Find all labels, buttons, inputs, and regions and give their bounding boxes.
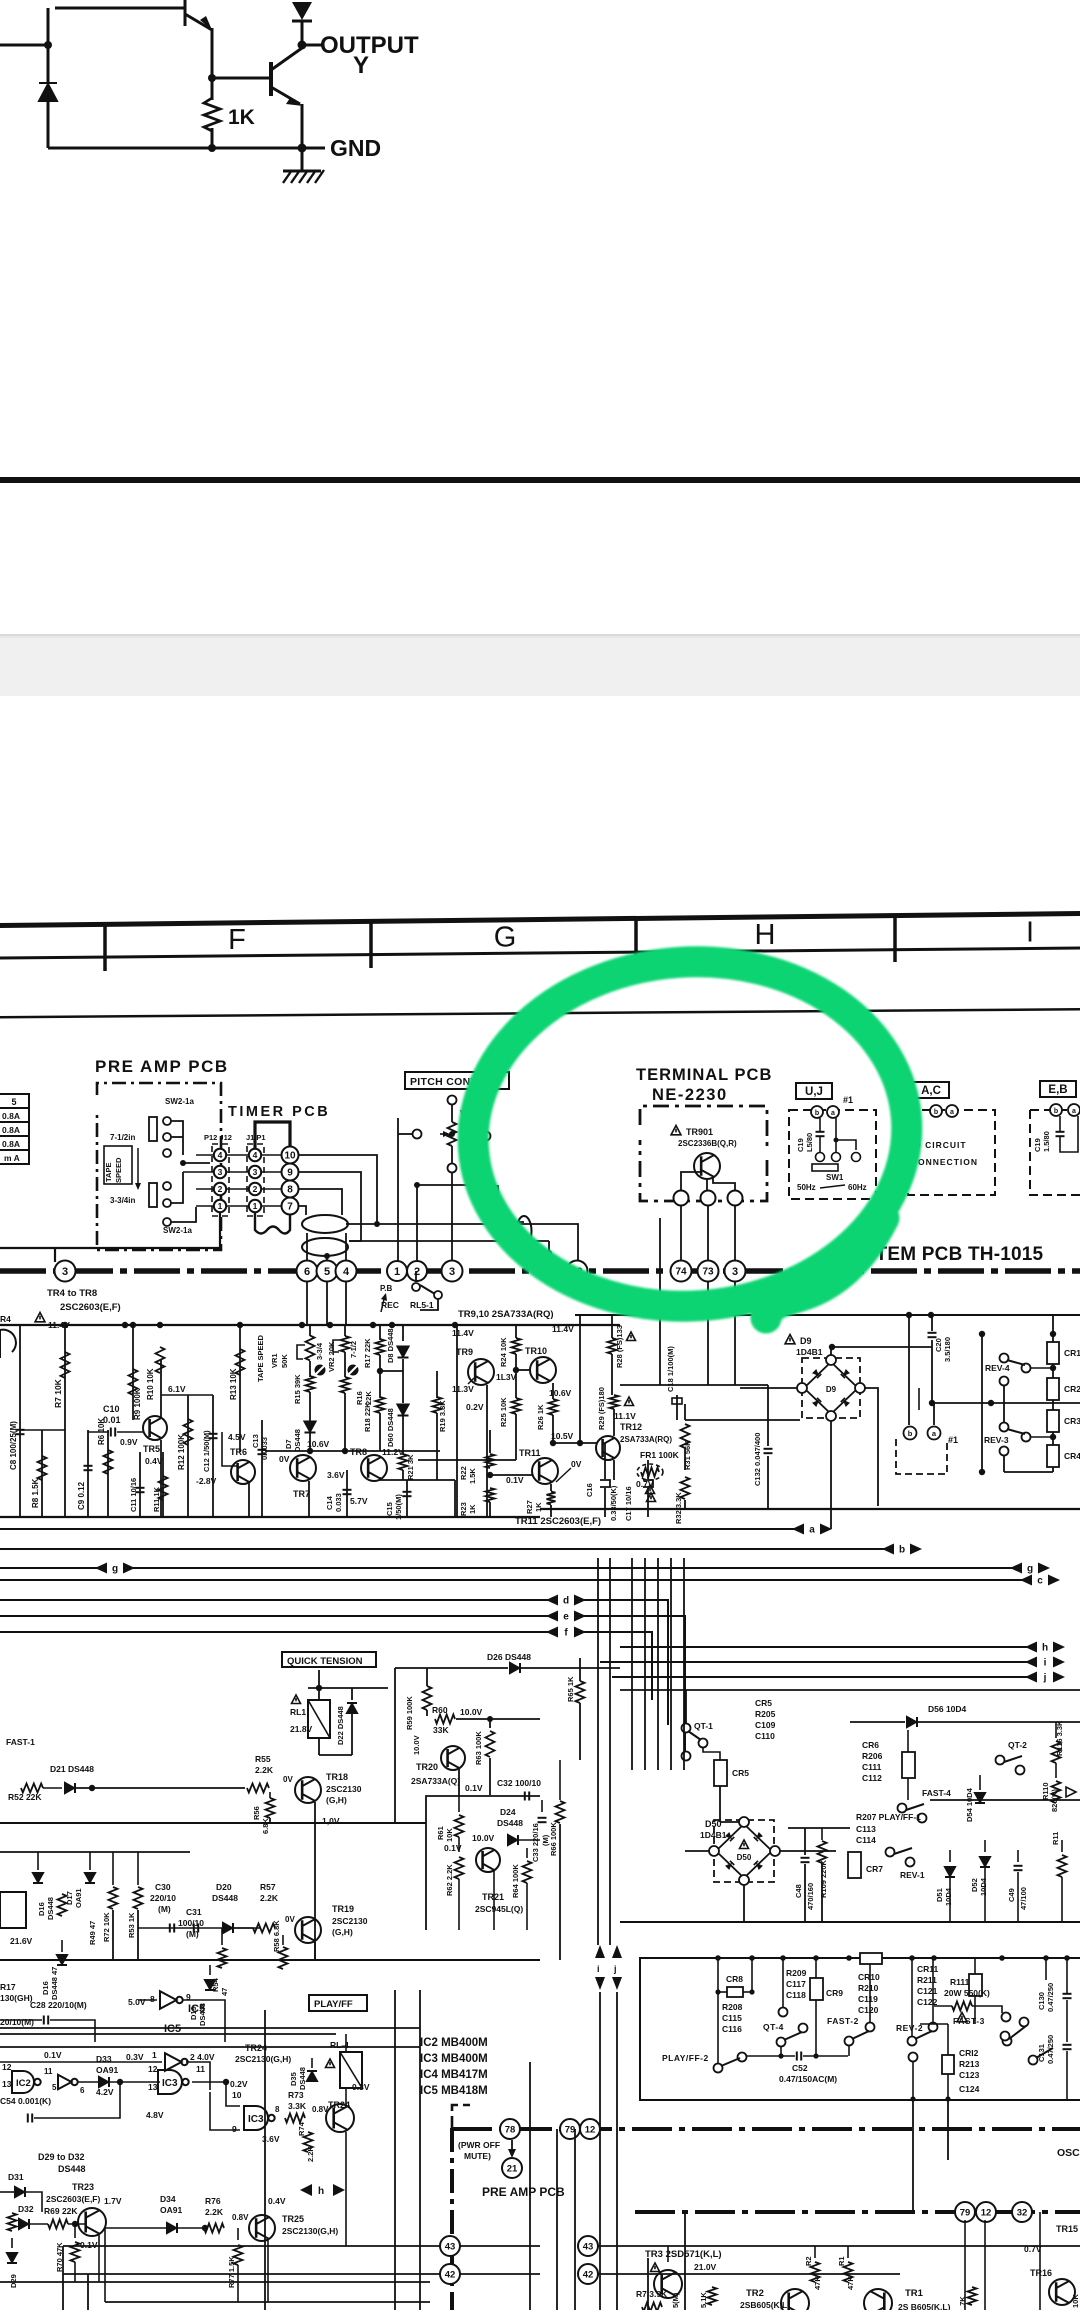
svg-text:TR6: TR6 xyxy=(230,1447,247,1457)
wire xyxy=(196,1154,213,1156)
svg-text:130(GH): 130(GH) xyxy=(0,1993,33,2003)
svg-text:C112: C112 xyxy=(862,1773,882,1783)
wire xyxy=(1052,1432,1054,1445)
wire xyxy=(78,2081,98,2083)
svg-text:TAPE SPEED: TAPE SPEED xyxy=(256,1334,265,1382)
svg-text:IC2 MB400M: IC2 MB400M xyxy=(420,2037,488,2049)
wire xyxy=(47,102,50,148)
svg-text:#1: #1 xyxy=(843,1095,853,1105)
svg-text:C117: C117 xyxy=(786,1979,806,1989)
wire xyxy=(681,1172,701,1192)
svg-text:11.4V: 11.4V xyxy=(452,1328,474,1338)
svg-text:47: 47 xyxy=(220,1988,229,1996)
resistor R1 xyxy=(844,2262,853,2282)
transistor TR3 xyxy=(654,2270,682,2298)
svg-text:4: 4 xyxy=(218,1150,223,1160)
svg-text:R205: R205 xyxy=(755,1709,776,1719)
wire xyxy=(519,1839,540,1841)
junction xyxy=(1043,1955,1049,1961)
svg-text:QT-2: QT-2 xyxy=(1008,1740,1027,1750)
wire xyxy=(583,1600,668,1725)
transistor TR21 xyxy=(476,1848,500,1872)
junction xyxy=(1050,1331,1056,1337)
svg-text:TR12: TR12 xyxy=(620,1422,642,1432)
svg-text:C124: C124 xyxy=(959,2084,980,2094)
wire xyxy=(931,1315,933,1331)
svg-text:DS448 47: DS448 47 xyxy=(50,1967,59,2000)
svg-text:CR7: CR7 xyxy=(866,1864,883,1874)
svg-text:C52: C52 xyxy=(792,2063,808,2073)
switch FAST-2 xyxy=(845,2037,854,2046)
pin 1 J1 xyxy=(249,1200,261,1212)
wire xyxy=(20,1429,65,1431)
svg-text:11: 11 xyxy=(196,2064,205,2074)
wire xyxy=(979,1775,981,1790)
wire xyxy=(262,1205,281,1207)
svg-text:G: G xyxy=(494,921,517,953)
svg-text:(M): (M) xyxy=(158,1904,171,1914)
junction xyxy=(834,1138,839,1143)
wire xyxy=(302,147,325,150)
timer pcb outline xyxy=(255,1122,290,1150)
resistor R69 xyxy=(48,2220,68,2229)
junction xyxy=(979,1331,985,1337)
junction xyxy=(909,1955,915,1961)
wire xyxy=(237,2228,239,2240)
wire xyxy=(419,1990,421,2310)
svg-text:0.1V: 0.1V xyxy=(80,2240,98,2250)
svg-text:j: j xyxy=(613,1964,617,1974)
svg-text:5.1K: 5.1K xyxy=(699,2292,708,2308)
resistor R58 xyxy=(279,1947,288,1969)
resistor R109 xyxy=(818,1841,827,1863)
wire xyxy=(556,2129,558,2310)
wire xyxy=(598,2273,900,2275)
junction xyxy=(298,41,307,50)
transistor TR9 xyxy=(468,1359,494,1385)
pin a xyxy=(928,1427,941,1440)
svg-text:J1 P1: J1 P1 xyxy=(246,1133,266,1142)
diode D24 xyxy=(508,1835,518,1845)
wire xyxy=(196,1188,213,1190)
svg-text:5: 5 xyxy=(52,2083,57,2092)
svg-text:R59 100K: R59 100K xyxy=(405,1696,414,1730)
svg-text:0.8A: 0.8A xyxy=(2,1111,20,1121)
svg-text:C115: C115 xyxy=(722,2013,742,2023)
resistor CR12 xyxy=(942,2055,954,2074)
svg-text:C48: C48 xyxy=(794,1884,803,1898)
trimmer mark 2 xyxy=(347,1364,359,1376)
wire xyxy=(767,1456,769,1509)
wire xyxy=(821,1828,823,1840)
svg-text:REV-2: REV-2 xyxy=(896,2023,923,2033)
diode D21 xyxy=(65,1783,75,1793)
wire xyxy=(604,1443,606,1479)
wire xyxy=(436,1413,438,1480)
wire xyxy=(171,1172,183,1203)
svg-text:TR11: TR11 xyxy=(519,1448,541,1458)
wire xyxy=(804,1864,806,1922)
junction xyxy=(577,1440,583,1446)
header tick xyxy=(369,921,373,968)
svg-text:P12 J12: P12 J12 xyxy=(204,1133,232,1142)
resistor R49 xyxy=(58,1894,67,1916)
svg-text:h: h xyxy=(1042,1642,1048,1653)
svg-text:NE-2230: NE-2230 xyxy=(652,1086,728,1104)
svg-text:10.0V: 10.0V xyxy=(472,1833,495,1843)
resistor R62 xyxy=(455,1857,464,1879)
capacitor C49 xyxy=(1014,1866,1023,1870)
bridge diode xyxy=(754,1832,763,1841)
bridge diode xyxy=(841,1369,850,1378)
svg-text:3: 3 xyxy=(449,1266,455,1278)
wire xyxy=(984,2220,986,2310)
resistor R56 xyxy=(266,1798,275,1818)
junction xyxy=(208,74,216,82)
svg-text:CR10: CR10 xyxy=(858,1972,880,1982)
svg-text:4: 4 xyxy=(343,1266,350,1278)
wire xyxy=(1003,1385,1005,1422)
svg-text:D33: D33 xyxy=(96,2054,112,2064)
wire xyxy=(0,2046,420,2048)
svg-text:R55: R55 xyxy=(255,1754,271,1764)
resistor R66 xyxy=(556,1801,565,1823)
wire xyxy=(947,2100,949,2160)
wire xyxy=(680,1206,682,1262)
svg-text:C49: C49 xyxy=(1007,1888,1016,1902)
svg-text:2SA733A(RQ): 2SA733A(RQ) xyxy=(620,1435,672,1444)
switch SW1 bar xyxy=(812,1164,838,1171)
svg-text:C11 10/16: C11 10/16 xyxy=(129,1478,138,1512)
capacitor C11 xyxy=(136,1488,145,1492)
resistor R7b xyxy=(642,2303,662,2312)
svg-text:78: 78 xyxy=(505,2124,516,2135)
wire xyxy=(406,1480,408,1517)
wire xyxy=(631,1690,633,1770)
wire xyxy=(311,2058,313,2068)
svg-text:1K: 1K xyxy=(468,1504,477,1514)
resistor R18 xyxy=(376,1397,385,1413)
wire xyxy=(835,1140,837,1152)
wire xyxy=(659,1218,661,1385)
svg-text:79: 79 xyxy=(565,2124,576,2135)
wire xyxy=(1004,1471,1053,1473)
contact circle xyxy=(816,1153,825,1162)
diode D54 xyxy=(975,1793,985,1803)
wire xyxy=(34,2082,120,2118)
svg-text:h: h xyxy=(318,2186,324,2197)
switch QT-1 xyxy=(682,1724,691,1733)
wire xyxy=(426,1710,428,1716)
wire xyxy=(900,1921,1080,1923)
svg-text:D20: D20 xyxy=(216,1882,232,1892)
svg-text:R65 1K: R65 1K xyxy=(566,1676,575,1702)
wire xyxy=(734,1206,736,1262)
wire xyxy=(583,1616,685,1760)
svg-text:R109 220K: R109 220K xyxy=(819,1859,828,1898)
svg-text:H: H xyxy=(755,919,776,951)
svg-text:0.0033: 0.0033 xyxy=(260,1437,269,1460)
svg-text:4.2V: 4.2V xyxy=(96,2087,114,2097)
warning mark xyxy=(785,1335,795,1344)
arrow j down xyxy=(612,1945,622,1958)
pin a xyxy=(827,1106,839,1118)
wire xyxy=(306,1282,308,1325)
bridge diode xyxy=(725,1861,734,1870)
wire xyxy=(934,2005,952,2007)
svg-text:IC5: IC5 xyxy=(188,2003,205,2015)
capacitor C31 xyxy=(194,1924,198,1933)
pin 4 P12 xyxy=(214,1149,226,1161)
wire xyxy=(55,1213,220,1248)
dashed box D9 xyxy=(802,1358,860,1418)
wire xyxy=(211,128,214,148)
svg-text:R7 3.9K: R7 3.9K xyxy=(636,2289,668,2299)
svg-text:TR20: TR20 xyxy=(416,1762,438,1772)
diode xyxy=(39,83,57,101)
wire xyxy=(402,1416,404,1455)
open arrow xyxy=(1066,1787,1076,1797)
wire xyxy=(670,1690,672,1770)
junction xyxy=(846,1955,852,1961)
svg-text:TR3 2SD571(K,L): TR3 2SD571(K,L) xyxy=(645,2249,722,2260)
resistor CR8 xyxy=(727,1987,743,1997)
switch contact xyxy=(434,1291,442,1299)
svg-text:2.2K: 2.2K xyxy=(306,2146,315,2162)
svg-text:C30: C30 xyxy=(155,1882,171,1892)
svg-text:R27: R27 xyxy=(525,1500,534,1514)
NAND IC2 xyxy=(12,2071,41,2093)
svg-text:42: 42 xyxy=(583,2269,594,2280)
transistor TR12 xyxy=(596,1436,620,1460)
resistor R31 xyxy=(681,1424,690,1448)
wire xyxy=(541,1800,543,1812)
junction xyxy=(929,1400,935,1406)
junction xyxy=(546,1250,552,1256)
svg-text:CR3: CR3 xyxy=(1064,1416,1080,1426)
switch contact SW2 xyxy=(163,1149,171,1157)
junction xyxy=(979,1469,985,1475)
wire xyxy=(43,1787,62,1789)
node arrow g xyxy=(1010,1563,1050,1575)
svg-text:R58 6.8K: R58 6.8K xyxy=(272,1920,281,1952)
wire xyxy=(183,2000,225,2042)
node 42 xyxy=(440,2264,460,2284)
switch REV-4 xyxy=(1000,1354,1009,1363)
svg-text:RL1: RL1 xyxy=(290,1707,306,1717)
svg-text:C113: C113 xyxy=(856,1824,876,1834)
junction xyxy=(342,1448,348,1454)
wire xyxy=(526,1848,528,1858)
wire xyxy=(62,2246,64,2310)
wire xyxy=(815,2000,817,2056)
svg-text:#1: #1 xyxy=(948,1435,958,1445)
wire xyxy=(48,147,302,150)
wire xyxy=(819,1118,821,1132)
wire xyxy=(0,1631,548,1633)
wire xyxy=(227,1188,248,1190)
svg-text:b: b xyxy=(899,1544,905,1555)
svg-text:TR21: TR21 xyxy=(482,1892,504,1902)
dashed box D50 xyxy=(714,1820,774,1882)
svg-text:6.1V: 6.1V xyxy=(168,1384,186,1394)
wire xyxy=(489,1502,491,1517)
svg-text:6: 6 xyxy=(80,2086,85,2095)
wire xyxy=(0,1247,55,1249)
wire xyxy=(1052,1315,1054,1342)
resistor R73 xyxy=(285,2114,305,2123)
wire xyxy=(418,1459,516,1461)
svg-text:VR1: VR1 xyxy=(270,1353,279,1368)
resistor 1K xyxy=(204,98,220,131)
wire xyxy=(395,1667,508,1669)
wire xyxy=(1066,1958,1068,1993)
wire xyxy=(490,1474,532,1476)
svg-text:REV-3: REV-3 xyxy=(984,1435,1009,1445)
junction xyxy=(999,1955,1005,1961)
wire xyxy=(830,1347,832,1355)
resistor R9 xyxy=(129,1369,138,1395)
svg-text:SW2-1a: SW2-1a xyxy=(165,1097,194,1106)
node arrow b xyxy=(882,1544,922,1556)
wire xyxy=(379,1355,381,1371)
switch REV-3 lower xyxy=(1000,1447,1009,1456)
junction xyxy=(1050,1365,1056,1371)
timer pcb outline lower xyxy=(255,1212,290,1234)
switch QT-4 xyxy=(777,2038,786,2047)
transistor TR7 xyxy=(290,1455,316,1481)
svg-text:0V: 0V xyxy=(279,1454,290,1464)
transistor TR11 xyxy=(532,1458,558,1484)
svg-text:TAPE: TAPE xyxy=(104,1163,113,1182)
svg-text:TR1: TR1 xyxy=(905,2288,924,2299)
svg-text:R8 1.5K: R8 1.5K xyxy=(31,1478,40,1508)
transistor TR24 xyxy=(326,2104,354,2132)
wire xyxy=(112,1852,114,1885)
arrow i down xyxy=(595,1945,605,1958)
warning mark xyxy=(292,1695,301,1704)
pin b xyxy=(930,1105,942,1117)
svg-text:21: 21 xyxy=(507,2163,518,2174)
node 6 rail xyxy=(297,1261,318,1282)
wire xyxy=(344,1325,346,1336)
wire xyxy=(489,1758,491,1795)
svg-text:0V: 0V xyxy=(285,1915,295,1924)
wire xyxy=(344,1393,346,1451)
resistor CR5 xyxy=(714,1760,727,1786)
wire xyxy=(76,1787,245,1789)
svg-text:13: 13 xyxy=(148,2082,158,2092)
svg-text:5(M): 5(M) xyxy=(671,2292,680,2308)
wire xyxy=(212,1395,214,1517)
diode D51 xyxy=(945,1867,955,1877)
wire xyxy=(635,2210,1080,2214)
svg-text:QT-1: QT-1 xyxy=(694,1721,713,1731)
wire xyxy=(458,1837,460,1852)
svg-text:CR1: CR1 xyxy=(1064,1348,1080,1358)
wire xyxy=(815,1958,817,1978)
resistor CR9 xyxy=(810,1978,823,2000)
wire xyxy=(402,1325,404,1341)
svg-text:C116: C116 xyxy=(722,2024,742,2034)
junction xyxy=(157,1322,163,1328)
svg-text:0.7V: 0.7V xyxy=(1024,2244,1042,2254)
svg-text:C20: C20 xyxy=(934,1338,943,1352)
wire xyxy=(87,1430,89,1517)
wire xyxy=(920,2023,948,2025)
dashed box E,B xyxy=(1030,1110,1080,1195)
svg-text:C12 1/50(M): C12 1/50(M) xyxy=(202,1430,211,1472)
wire xyxy=(869,1958,871,2023)
connector dashed box P12 xyxy=(212,1144,229,1216)
wire xyxy=(237,2265,239,2302)
wire xyxy=(345,2034,347,2052)
svg-text:i: i xyxy=(1044,1657,1047,1668)
svg-text:0.8A: 0.8A xyxy=(2,1125,20,1135)
wire xyxy=(107,1430,109,1517)
junction xyxy=(307,1448,313,1454)
svg-text:IC3: IC3 xyxy=(248,2114,264,2125)
wire xyxy=(222,1432,237,1466)
wire xyxy=(308,1687,388,1689)
wire xyxy=(947,2074,949,2100)
svg-text:TIMER PCB: TIMER PCB xyxy=(228,1104,330,1120)
bridge diode xyxy=(841,1398,850,1407)
bridge pin xyxy=(739,1817,749,1827)
svg-text:R19 3.3K: R19 3.3K xyxy=(438,1400,447,1432)
pin 1 P12 xyxy=(214,1200,226,1212)
svg-text:IC4 MB417M: IC4 MB417M xyxy=(420,2069,488,2081)
svg-text:12: 12 xyxy=(148,2064,158,2074)
wire xyxy=(782,1958,784,2007)
wire xyxy=(452,2127,1080,2131)
junction xyxy=(813,2053,818,2058)
resistor R70 xyxy=(71,2242,80,2262)
svg-text:3: 3 xyxy=(253,1167,258,1177)
svg-text:c: c xyxy=(1037,1575,1043,1586)
svg-text:2SC2130(G,H): 2SC2130(G,H) xyxy=(282,2226,338,2236)
label A,C xyxy=(913,1082,949,1098)
capacitor C13 xyxy=(258,1450,267,1454)
wire xyxy=(0,1528,795,1530)
wire xyxy=(345,2088,347,2104)
resistor R28 xyxy=(608,1338,617,1354)
wire xyxy=(719,1786,721,1822)
node 79b xyxy=(955,2202,975,2222)
wire xyxy=(308,1481,310,1517)
resistor R15 xyxy=(306,1376,315,1392)
svg-text:43: 43 xyxy=(583,2241,594,2252)
node 43b xyxy=(578,2236,598,2256)
switch right edge xyxy=(1029,2056,1038,2065)
svg-text:REC: REC xyxy=(381,1300,399,1310)
wire xyxy=(832,1346,932,1348)
svg-text:R74: R74 xyxy=(297,2121,306,2136)
warning mark xyxy=(35,1313,45,1322)
wire xyxy=(707,1282,709,1385)
wire xyxy=(579,1703,581,1760)
svg-text:OA91: OA91 xyxy=(96,2065,118,2075)
diode D34 xyxy=(167,2223,177,2233)
svg-text:2SC2603(E,F): 2SC2603(E,F) xyxy=(46,2194,100,2204)
resistor R77 xyxy=(234,2245,243,2265)
resistor R-left xyxy=(8,2213,17,2231)
NAND IC3b xyxy=(244,2106,275,2130)
wire xyxy=(0,2019,42,2021)
svg-text:R57: R57 xyxy=(260,1882,276,1892)
svg-text:2: 2 xyxy=(218,1184,223,1194)
wire xyxy=(703,1748,720,1760)
